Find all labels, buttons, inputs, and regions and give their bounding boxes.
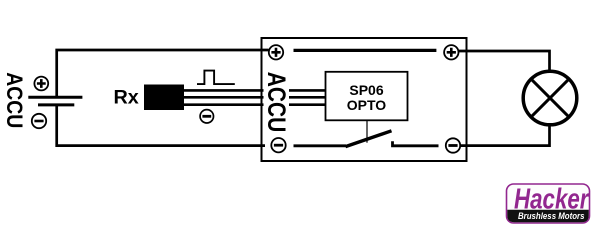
node minus terminal bottom-right [446,138,460,152]
wire battery plus to controller box top-left [57,50,269,97]
signal minus polarity mark [200,110,213,123]
node minus terminal bottom-left [271,138,285,152]
lamp M1 [523,71,577,125]
svg-text:Rx: Rx [114,87,139,109]
wire controller plus to lamp [458,51,550,72]
wire servo lead 3 conductors right segment [289,90,334,104]
controller box [262,38,467,161]
svg-text:SP06: SP06 [349,82,383,98]
switch S1 [294,131,439,147]
svg-text:ACCU: ACCU [262,72,290,133]
wire servo lead 3 conductors left segment [184,90,264,104]
svg-text:ACCU: ACCU [2,72,27,128]
battery B1 plus terminal mark [34,77,48,91]
receiver servo plug [144,85,184,111]
Hacker logo [507,184,590,224]
battery B1 [28,97,82,105]
signal pulse symbol [197,71,235,85]
wire control line SP06 to switch [366,121,368,143]
wire lamp to controller minus [461,125,550,146]
battery B1 minus terminal mark [32,114,46,128]
node plus terminal top-right [444,45,458,59]
node plus terminal top-left [269,45,283,59]
svg-text:OPTO: OPTO [347,97,387,113]
svg-text:Brushless Motors: Brushless Motors [518,211,585,222]
wire battery minus to controller box bottom-left [57,105,265,146]
module SP06 OPTO [326,72,408,121]
wire internal plus bus [294,49,437,52]
